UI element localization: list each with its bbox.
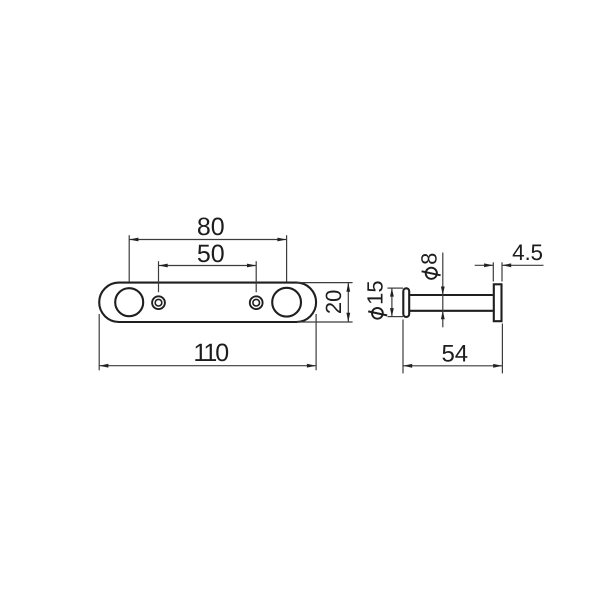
dimension 110: value label xyxy=(193,339,228,367)
dimension 54: arrowheads xyxy=(403,364,502,368)
front view: right small screw hole inner xyxy=(253,299,260,306)
dimension 54: extension lines xyxy=(403,320,502,374)
dimension phi8: dimension line upper xyxy=(442,253,444,296)
dimension phi15: extension lines xyxy=(388,288,404,317)
dimension 50: arrowheads xyxy=(159,264,257,268)
front view: left large hole xyxy=(115,288,143,316)
dimension 110: dimension line xyxy=(99,365,316,367)
front view: right small screw hole outer xyxy=(250,296,263,309)
dimension 20: arrowheads xyxy=(346,283,350,322)
dimension phi8: value label digit 8 (rotated) xyxy=(417,253,442,265)
dimension 110: arrowheads xyxy=(99,364,316,368)
svg-text:15: 15 xyxy=(362,280,387,304)
svg-text:4.5: 4.5 xyxy=(512,240,543,265)
front view: left small screw hole inner xyxy=(155,299,162,306)
dimension 20: dimension line xyxy=(347,283,349,322)
dimension 80: arrowheads xyxy=(129,238,286,242)
svg-text:80: 80 xyxy=(197,213,225,241)
front view: left small screw hole outer xyxy=(152,296,165,309)
side view: rod top line xyxy=(409,294,493,296)
svg-text:20: 20 xyxy=(321,290,346,314)
dimension 80: extension lines xyxy=(129,235,286,281)
front view: stadium base plate outline xyxy=(99,283,316,322)
front view: right large hole xyxy=(272,288,301,317)
dimension 20: value label (rotated) xyxy=(321,290,346,314)
dimension 80: dimension line xyxy=(129,239,286,241)
dimension phi15: value label digits 15 (rotated) xyxy=(362,280,387,304)
dimension 80: value label xyxy=(197,213,225,241)
side view: knob cap xyxy=(403,288,409,317)
dimension phi15: diameter symbol xyxy=(368,308,387,319)
dimension phi15: arrowheads xyxy=(390,288,394,317)
dimension 54: dimension line xyxy=(403,365,502,367)
dimension 50: extension lines xyxy=(159,261,257,292)
dimension 4.5: extension lines xyxy=(493,262,502,281)
side view: wall plate xyxy=(494,284,502,321)
svg-text:8: 8 xyxy=(417,253,442,265)
svg-text:54: 54 xyxy=(441,341,468,368)
dimension phi8: dimension line through rod and below xyxy=(442,295,444,327)
dimension phi8: diameter symbol xyxy=(422,268,441,279)
dimension 4.5: dimension line right with arrowhead xyxy=(502,263,544,267)
dimension 110: extension lines xyxy=(99,314,316,370)
svg-text:50: 50 xyxy=(197,240,225,268)
dimension phi8: arrowheads xyxy=(441,287,445,320)
dimension 50: value label xyxy=(197,240,225,268)
dimension 4.5: value label xyxy=(512,240,543,265)
dimension phi15: dimension line xyxy=(391,288,393,317)
dimension 4.5: dimension line left with arrowhead xyxy=(475,263,494,267)
dimension 54: value label xyxy=(441,341,468,368)
side view: rod bottom line xyxy=(409,310,493,312)
dimension 20: extension lines xyxy=(297,283,353,322)
svg-text:110: 110 xyxy=(193,339,228,367)
dimension 50: dimension line xyxy=(159,265,257,267)
